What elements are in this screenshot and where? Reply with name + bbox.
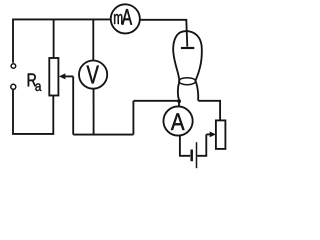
wire junction to ammeter xyxy=(178,101,180,107)
wire voltmeter top xyxy=(92,19,94,60)
node junction dot xyxy=(177,99,181,103)
resistor Ra body xyxy=(49,58,58,96)
wire tube right leg to rheostat top xyxy=(198,101,220,121)
tube filament loop xyxy=(179,78,196,85)
label A of mA xyxy=(122,9,132,25)
battery positive plate (long thin) xyxy=(196,142,198,168)
wire mid horizontal to A junction xyxy=(133,100,179,102)
label V of voltmeter xyxy=(87,66,99,84)
rheostat wiper arrowhead xyxy=(210,132,216,138)
Ra wiper arrow shaft xyxy=(63,75,73,77)
rheostat R body xyxy=(216,120,226,148)
milliammeter mA body xyxy=(111,4,140,33)
label A of ammeter xyxy=(171,113,185,130)
tube envelope with cathode lead legs xyxy=(173,31,202,101)
rheostat wiper arrow shaft xyxy=(206,133,212,135)
wire ammeter bottom to battery xyxy=(180,136,190,156)
tube anode plate bar xyxy=(181,47,194,49)
wire riser at node xyxy=(132,101,134,135)
wire voltmeter bottom xyxy=(93,89,95,135)
wire bottom middle rail xyxy=(73,134,133,136)
wire Ra top to top rail xyxy=(53,19,55,58)
label a subscript of Ra xyxy=(35,83,41,91)
wire wiper down xyxy=(72,76,74,134)
label m of mA xyxy=(114,14,122,24)
label R of Ra xyxy=(28,74,36,87)
wire left-bottom corner to Ra bottom leg xyxy=(13,90,53,134)
wire battery to rheostat wiper xyxy=(197,134,206,155)
Ra wiper arrowhead xyxy=(59,73,66,79)
switch S terminal 2 xyxy=(11,84,16,89)
wire top-left corner to mA xyxy=(13,19,111,62)
battery negative plate (short thick) xyxy=(190,150,193,162)
ammeter A body xyxy=(163,106,192,135)
voltmeter V body xyxy=(79,61,107,89)
switch S terminal 1 xyxy=(11,64,16,69)
wire mA to tube anode corner xyxy=(140,20,187,47)
